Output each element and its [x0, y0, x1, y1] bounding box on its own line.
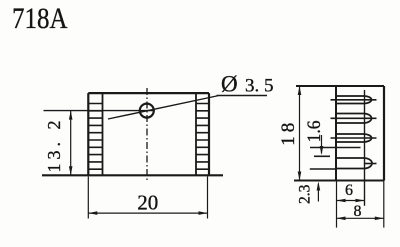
hole horizontal center / extension line	[44, 110, 155, 112]
fin line L1	[331, 99, 377, 101]
svg-text:20: 20	[137, 191, 158, 215]
dimension 13.2 line with arrows	[70, 111, 72, 176]
fin line L4a	[310, 147, 361, 149]
dimension 20 line with arrows	[88, 212, 207, 214]
side view bottom edge	[294, 179, 384, 181]
dimension 18 line with arrows	[299, 86, 301, 181]
front view top edge	[88, 92, 209, 94]
front view right fin strip rungs	[196, 104, 209, 170]
side view left wall extension down	[336, 181, 338, 228]
svg-text:18: 18	[278, 123, 299, 146]
side view right edge extension down	[383, 181, 385, 228]
svg-text:13. 2: 13. 2	[44, 121, 64, 173]
slot S3	[336, 134, 372, 142]
side view left wall	[335, 86, 337, 181]
front view left edge	[87, 93, 89, 175]
dimension 6 line with arrows	[337, 200, 365, 202]
side view right edge	[383, 86, 385, 181]
dimension 1.6 arrow	[321, 135, 323, 154]
slot S4	[336, 158, 372, 169]
dimension 2.3 arrow	[317, 184, 319, 202]
front view left fin strip inner edge	[102, 93, 104, 175]
dimension 8 line with arrows	[337, 217, 384, 219]
front view right edge	[208, 93, 210, 175]
mounting hole circle	[140, 104, 154, 118]
front view left fin strip rungs	[88, 104, 102, 170]
front view bottom edge / dimension reference line	[42, 174, 223, 176]
slot S1	[336, 96, 372, 104]
leader line to hole diameter label	[108, 96, 267, 120]
svg-text:2.3: 2.3	[297, 184, 314, 204]
fin tip vertical line	[364, 90, 366, 206]
svg-text:8: 8	[354, 203, 362, 220]
side view top edge	[296, 85, 384, 87]
front view right fin strip inner edge	[195, 93, 197, 175]
front view vertical center line (dash-dot)	[146, 88, 148, 180]
fin line L2	[331, 117, 377, 119]
fin line L5 (2.3 reference)	[310, 168, 336, 170]
slot S4 center stub	[365, 163, 377, 165]
fin line L4b	[314, 155, 330, 157]
svg-text:3. 5: 3. 5	[245, 76, 274, 97]
slot S2	[336, 114, 372, 124]
fin line L3	[331, 137, 377, 139]
dimension 20 extension lines	[88, 177, 207, 219]
svg-text:718A: 718A	[12, 3, 68, 35]
svg-text:Ø: Ø	[221, 72, 238, 97]
svg-text:6: 6	[345, 182, 353, 199]
